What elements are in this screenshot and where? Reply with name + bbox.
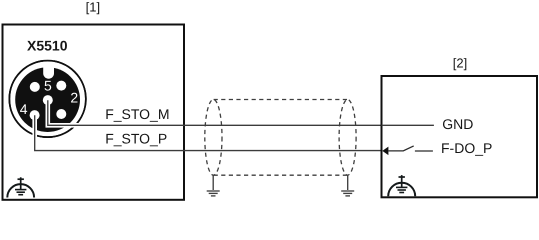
connector X5510 outer circle (9, 61, 86, 137)
wire GND stub (382, 124, 434, 126)
switch blade F-DO_P (388, 146, 413, 151)
pin 5 center (43, 95, 53, 105)
switch fixed contact wire (415, 150, 433, 152)
shield earth left (207, 175, 220, 196)
protective earth symbol box 1 (7, 177, 34, 197)
pin bottom-right (56, 109, 66, 119)
connector keyway notch (43, 60, 54, 79)
svg-text:F-DO_P: F-DO_P (441, 140, 492, 156)
svg-text:5: 5 (44, 78, 52, 94)
svg-text:X5510: X5510 (27, 38, 68, 54)
svg-text:2: 2 (70, 89, 78, 105)
connector X5510 insert face (15, 67, 80, 132)
svg-text:GND: GND (442, 116, 473, 132)
cable shield screen (dashed cylinder) (205, 100, 356, 176)
connector outer circle stroke (over notch) (9, 61, 86, 137)
pin 2 top-right (56, 81, 66, 91)
arrow into F-DO_P (382, 147, 388, 156)
svg-text:[2]: [2] (453, 55, 467, 70)
svg-text:F_STO_P: F_STO_P (105, 131, 167, 147)
pin top-left (30, 82, 40, 92)
svg-text:4: 4 (20, 101, 28, 117)
svg-text:[1]: [1] (86, 0, 100, 15)
pin 4 bottom-left (30, 110, 40, 120)
shield earth right (341, 175, 354, 196)
box [2] safe output device (382, 76, 538, 197)
wire F_STO_M core: pin 5 to box 2 (48, 100, 383, 125)
svg-text:F_STO_M: F_STO_M (105, 106, 169, 122)
wire F_STO_P core: pin 4 to box 2 edge (35, 115, 383, 150)
wire F_STO_M from pin 5 (white casing) (48, 100, 95, 125)
box [1] drive device (3, 25, 185, 200)
wire F_STO_P from pin 4 (white casing) (35, 115, 95, 150)
protective earth symbol box 2 (388, 175, 415, 196)
